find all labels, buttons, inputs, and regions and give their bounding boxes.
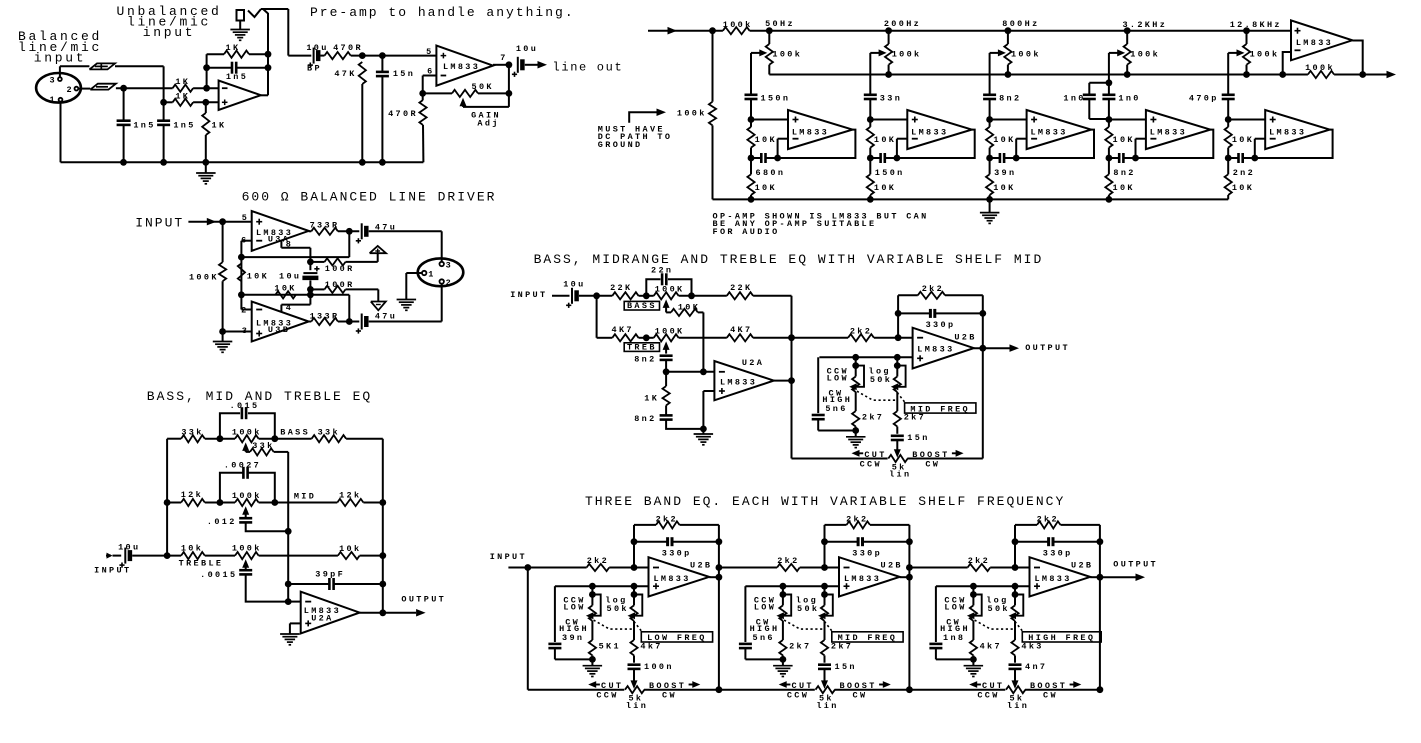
svg-text:10K: 10K	[678, 303, 700, 313]
svg-text:TREBLE: TREBLE	[179, 558, 224, 568]
svg-text:2k2: 2k2	[587, 556, 609, 566]
svg-text:LM833: LM833	[1296, 38, 1333, 48]
svg-text:HIGH: HIGH	[822, 395, 852, 405]
svg-text:CCW: CCW	[596, 691, 618, 701]
svg-text:12.8KHz: 12.8KHz	[1230, 20, 1282, 30]
svg-text:133R: 133R	[310, 311, 340, 321]
svg-text:15n: 15n	[835, 662, 857, 672]
svg-text:CCW: CCW	[860, 459, 882, 469]
svg-text:MID: MID	[294, 491, 316, 501]
svg-text:lin: lin	[1007, 701, 1029, 711]
svg-text:1K: 1K	[175, 77, 190, 87]
svg-text:3: 3	[49, 76, 56, 86]
svg-text:15n: 15n	[907, 433, 929, 443]
svg-text:2k7: 2k7	[789, 642, 811, 652]
svg-text:10k: 10k	[339, 544, 361, 554]
svg-text:4: 4	[286, 303, 293, 313]
svg-text:2k7: 2k7	[862, 413, 884, 423]
svg-text:1K: 1K	[175, 91, 190, 101]
svg-text:U2A: U2A	[311, 613, 333, 623]
svg-text:2: 2	[446, 278, 453, 288]
svg-text:10K: 10K	[755, 183, 777, 193]
svg-text:22K: 22K	[730, 283, 752, 293]
svg-text:330p: 330p	[1043, 548, 1073, 558]
svg-text:4k7: 4k7	[980, 642, 1002, 652]
svg-text:100k: 100k	[232, 427, 262, 437]
svg-text:4K7: 4K7	[730, 325, 752, 335]
svg-text:4K7: 4K7	[612, 325, 634, 335]
svg-text:LM833: LM833	[844, 574, 881, 584]
svg-text:10K: 10K	[1113, 183, 1135, 193]
svg-text:lin: lin	[626, 701, 648, 711]
svg-text:33k: 33k	[181, 427, 203, 437]
svg-text:LOW: LOW	[827, 374, 849, 384]
svg-text:100K: 100K	[189, 273, 219, 283]
svg-text:150n: 150n	[875, 168, 905, 178]
svg-text:100n: 100n	[644, 662, 674, 672]
svg-text:47K: 47K	[334, 69, 356, 79]
svg-text:LM833: LM833	[1034, 574, 1071, 584]
svg-text:10K: 10K	[755, 135, 777, 145]
svg-text:3: 3	[446, 260, 453, 270]
svg-text:5: 5	[426, 47, 433, 57]
svg-text:8n2: 8n2	[999, 94, 1021, 104]
svg-text:FOR AUDIO: FOR AUDIO	[713, 227, 780, 237]
svg-text:470R: 470R	[333, 43, 363, 53]
svg-text:100k: 100k	[1130, 50, 1160, 60]
svg-text:2: 2	[66, 85, 73, 95]
svg-text:22n: 22n	[651, 266, 673, 276]
svg-text:8: 8	[286, 239, 293, 249]
svg-text:OUTPUT: OUTPUT	[401, 594, 446, 604]
svg-text:100R: 100R	[325, 264, 355, 274]
svg-text:CW: CW	[853, 691, 868, 701]
svg-text:LM833: LM833	[653, 574, 690, 584]
svg-text:330p: 330p	[852, 548, 882, 558]
svg-text:1: 1	[49, 95, 56, 105]
svg-text:1n0: 1n0	[1118, 94, 1140, 104]
svg-text:.012: .012	[207, 517, 237, 527]
svg-text:10u: 10u	[118, 542, 140, 552]
svg-text:150n: 150n	[761, 94, 791, 104]
svg-text:MID FREQ: MID FREQ	[910, 404, 970, 414]
svg-text:100k: 100k	[723, 20, 753, 30]
svg-text:line out: line out	[553, 61, 624, 75]
svg-text:CW: CW	[1043, 691, 1058, 701]
svg-text:2k2: 2k2	[850, 327, 872, 337]
svg-text:1n0: 1n0	[1063, 94, 1085, 104]
svg-text:1K: 1K	[212, 121, 227, 131]
svg-text:22K: 22K	[610, 283, 632, 293]
svg-text:5n6: 5n6	[753, 633, 775, 643]
svg-text:2k2: 2k2	[922, 284, 944, 294]
svg-text:TREB: TREB	[627, 343, 657, 353]
svg-text:U2B: U2B	[690, 560, 712, 570]
svg-text:10u: 10u	[563, 280, 585, 290]
svg-text:470R: 470R	[388, 109, 418, 119]
svg-text:10u: 10u	[306, 43, 328, 53]
svg-text:MID FREQ: MID FREQ	[838, 633, 898, 643]
svg-text:50k: 50k	[988, 604, 1010, 614]
svg-text:7: 7	[500, 53, 507, 63]
svg-text:LM833: LM833	[1030, 127, 1067, 137]
svg-text:U2B: U2B	[1071, 560, 1093, 570]
svg-text:10u: 10u	[516, 44, 538, 54]
svg-text:330p: 330p	[926, 320, 956, 330]
svg-text:10k: 10k	[181, 543, 203, 553]
svg-text:INPUT: INPUT	[94, 566, 131, 576]
svg-text:HIGH: HIGH	[940, 624, 970, 634]
svg-text:100k: 100k	[1250, 50, 1280, 60]
svg-text:LOW FREQ: LOW FREQ	[647, 633, 707, 643]
svg-text:1K: 1K	[644, 394, 659, 404]
svg-text:600 Ω BALANCED LINE DRIVER: 600 Ω BALANCED LINE DRIVER	[242, 190, 497, 205]
svg-text:LM833: LM833	[792, 127, 829, 137]
svg-text:470p: 470p	[1189, 94, 1219, 104]
svg-text:HIGH: HIGH	[750, 624, 780, 634]
svg-text:10u: 10u	[279, 271, 301, 281]
svg-text:100k: 100k	[232, 543, 262, 553]
svg-text:1K: 1K	[226, 43, 241, 53]
svg-text:U3B: U3B	[268, 325, 290, 335]
svg-text:GROUND: GROUND	[598, 140, 643, 150]
svg-text:2k2: 2k2	[777, 556, 799, 566]
svg-text:HIGH: HIGH	[559, 624, 589, 634]
svg-text:input: input	[143, 25, 196, 40]
svg-text:10K: 10K	[1232, 135, 1254, 145]
svg-text:LM833: LM833	[917, 345, 954, 355]
svg-text:BP: BP	[307, 64, 322, 74]
svg-text:3: 3	[242, 326, 249, 336]
svg-text:LM833: LM833	[911, 127, 948, 137]
svg-text:33n: 33n	[880, 94, 902, 104]
svg-text:8n2: 8n2	[1113, 168, 1135, 178]
svg-text:BASS, MID AND TREBLE EQ: BASS, MID AND TREBLE EQ	[147, 389, 372, 404]
svg-text:5: 5	[242, 213, 249, 223]
svg-text:8n2: 8n2	[634, 414, 656, 424]
svg-text:50k: 50k	[607, 604, 629, 614]
svg-text:100k: 100k	[892, 50, 922, 60]
svg-text:1: 1	[428, 269, 435, 279]
svg-text:CCW: CCW	[977, 691, 999, 701]
svg-text:10K: 10K	[874, 135, 896, 145]
svg-text:12k: 12k	[339, 491, 361, 501]
svg-text:Adj: Adj	[477, 119, 499, 129]
svg-text:.0015: .0015	[200, 570, 237, 580]
svg-text:LM833: LM833	[443, 62, 480, 72]
svg-text:50K: 50K	[472, 82, 494, 92]
svg-text:10K: 10K	[1232, 183, 1254, 193]
svg-text:100k: 100k	[772, 50, 802, 60]
svg-text:100k: 100k	[232, 491, 262, 501]
svg-text:lin: lin	[889, 470, 911, 480]
svg-text:4n7: 4n7	[1025, 662, 1047, 672]
svg-text:1n8: 1n8	[943, 633, 965, 643]
svg-text:.0027: .0027	[224, 460, 261, 470]
svg-text:2k2: 2k2	[1037, 514, 1059, 524]
svg-text:2k2: 2k2	[846, 514, 868, 524]
svg-text:2: 2	[241, 306, 248, 316]
svg-text:U2A: U2A	[742, 358, 764, 368]
svg-text:10K: 10K	[874, 183, 896, 193]
svg-text:10K: 10K	[1113, 135, 1135, 145]
svg-text:100R: 100R	[325, 280, 355, 290]
svg-text:lin: lin	[816, 701, 838, 711]
svg-text:100K: 100K	[655, 285, 685, 295]
svg-text:10K: 10K	[274, 284, 296, 294]
svg-text:2n2: 2n2	[1233, 168, 1255, 178]
svg-text:5n6: 5n6	[825, 404, 847, 414]
svg-text:INPUT: INPUT	[510, 290, 547, 300]
svg-text:LM833: LM833	[720, 378, 757, 388]
svg-text:input: input	[34, 51, 87, 66]
svg-text:LM833: LM833	[1269, 127, 1306, 137]
svg-text:15n: 15n	[393, 69, 415, 79]
svg-text:CCW: CCW	[787, 691, 809, 701]
svg-text:10K: 10K	[993, 135, 1015, 145]
svg-text:INPUT: INPUT	[490, 552, 527, 562]
svg-text:U2B: U2B	[954, 333, 976, 343]
svg-text:47u: 47u	[375, 311, 397, 321]
svg-text:U2B: U2B	[881, 560, 903, 570]
svg-text:100K: 100K	[655, 327, 685, 337]
svg-text:LOW: LOW	[563, 603, 585, 613]
svg-text:BASS, MIDRANGE AND TREBLE EQ W: BASS, MIDRANGE AND TREBLE EQ WITH VARIAB…	[534, 252, 1044, 267]
svg-text:680n: 680n	[756, 168, 786, 178]
svg-text:LM833: LM833	[1150, 127, 1187, 137]
svg-text:100k: 100k	[1305, 63, 1335, 73]
svg-text:BASS: BASS	[280, 427, 310, 437]
svg-text:39n: 39n	[562, 633, 584, 643]
svg-text:39pF: 39pF	[315, 570, 345, 580]
svg-text:33k: 33k	[252, 441, 274, 451]
svg-text:733R: 733R	[310, 220, 340, 230]
svg-text:50k: 50k	[870, 375, 892, 385]
svg-text:INPUT: INPUT	[135, 216, 184, 231]
svg-text:OUTPUT: OUTPUT	[1113, 560, 1158, 570]
svg-text:10K: 10K	[993, 183, 1015, 193]
svg-text:50k: 50k	[797, 604, 819, 614]
svg-text:330p: 330p	[662, 548, 692, 558]
svg-text:100k: 100k	[1011, 50, 1041, 60]
svg-text:OUTPUT: OUTPUT	[1025, 343, 1070, 353]
svg-text:HIGH FREQ: HIGH FREQ	[1028, 633, 1095, 643]
svg-text:2k2: 2k2	[656, 514, 678, 524]
svg-text:12k: 12k	[181, 490, 203, 500]
svg-text:BASS: BASS	[627, 301, 657, 311]
svg-text:LOW: LOW	[944, 603, 966, 613]
svg-text:1n5: 1n5	[133, 121, 155, 131]
svg-text:.015: .015	[230, 401, 260, 411]
svg-text:1n5: 1n5	[173, 121, 195, 131]
svg-text:10K: 10K	[247, 272, 269, 282]
svg-text:8n2: 8n2	[634, 355, 656, 365]
svg-text:33k: 33k	[318, 427, 340, 437]
svg-text:CW: CW	[925, 459, 940, 469]
svg-text:1n5: 1n5	[226, 72, 248, 82]
svg-text:Pre-amp to handle anything.: Pre-amp to handle anything.	[310, 5, 575, 20]
svg-text:LOW: LOW	[754, 603, 776, 613]
svg-text:THREE BAND EQ. EACH WITH VARIA: THREE BAND EQ. EACH WITH VARIABLE SHELF …	[585, 494, 1065, 509]
svg-text:39n: 39n	[994, 168, 1016, 178]
svg-text:5K1: 5K1	[599, 642, 621, 652]
svg-text:100k: 100k	[677, 109, 707, 119]
svg-text:2k2: 2k2	[968, 556, 990, 566]
svg-text:CW: CW	[662, 691, 677, 701]
